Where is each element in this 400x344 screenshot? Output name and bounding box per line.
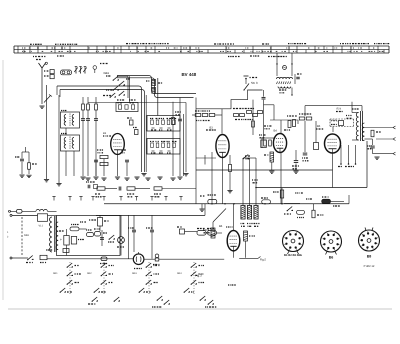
svg-text:SK2: SK2 [87,272,92,275]
svg-text:GB1: GB1 [104,71,110,75]
svg-text:SK 3: SK 3 [251,81,258,85]
svg-text:B4: B4 [274,130,278,133]
svg-text:Fig.5: Fig.5 [260,259,266,262]
svg-text:B1·B2·B3·B4b: B1·B2·B3·B4b [284,254,302,257]
svg-text:SK6: SK6 [24,234,29,237]
svg-text:B6: B6 [329,255,334,259]
svg-text:B3: B3 [210,127,214,130]
svg-text:B5: B5 [317,125,321,128]
svg-text:SK1: SK1 [53,272,58,275]
svg-text:B6: B6 [219,225,223,228]
svg-text:P 402 12: P 402 12 [364,265,375,268]
svg-text:VL1: VL1 [39,225,44,228]
svg-text:BV 448: BV 448 [182,72,197,77]
svg-text:B2: B2 [103,132,107,135]
svg-text:B8: B8 [367,254,372,258]
svg-text:SK4: SK4 [177,272,182,275]
svg-text:R24: R24 [337,108,342,111]
svg-text:SK3: SK3 [132,272,137,275]
